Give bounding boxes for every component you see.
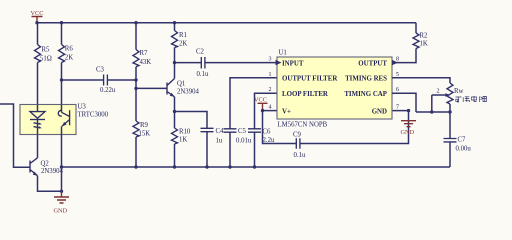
svg-text:C5: C5 — [238, 128, 247, 135]
resistor R1 — [172, 23, 188, 79]
svg-text:R7: R7 — [140, 50, 149, 57]
resistor R2 — [413, 23, 428, 49]
svg-text:Q2: Q2 — [41, 161, 50, 168]
svg-text:6: 6 — [396, 87, 399, 93]
svg-text:5: 5 — [396, 72, 399, 78]
junction top rail at R6 — [60, 21, 63, 24]
svg-text:2K: 2K — [179, 41, 187, 48]
svg-text:0.01u: 0.01u — [236, 138, 252, 145]
transistor Q1 2N3904 — [136, 79, 200, 129]
svg-text:1K: 1K — [179, 137, 187, 144]
svg-text:R1: R1 — [179, 32, 187, 39]
svg-text:3: 3 — [269, 57, 272, 63]
ground symbol right — [401, 121, 417, 136]
svg-text:15K: 15K — [139, 131, 151, 138]
svg-text:1u: 1u — [216, 138, 223, 145]
junction rail at R10 — [173, 165, 176, 168]
svg-text:GND: GND — [372, 108, 387, 115]
svg-text:OUTPUT: OUTPUT — [358, 60, 387, 67]
node junction R6/C3 — [60, 78, 63, 81]
optocoupler U3 TRTC3000 — [20, 104, 109, 135]
svg-text:C2: C2 — [196, 49, 205, 56]
svg-text:C4: C4 — [216, 128, 225, 135]
ground symbol left — [54, 191, 70, 214]
svg-text:2: 2 — [269, 87, 272, 93]
svg-text:2: 2 — [437, 89, 440, 95]
svg-text:R2: R2 — [420, 33, 429, 40]
svg-text:R9: R9 — [140, 122, 149, 129]
svg-text:TIMING RES: TIMING RES — [345, 76, 387, 83]
svg-text:C7: C7 — [458, 137, 467, 144]
wire pin4 V+ — [263, 110, 278, 112]
junction Rw bottom / C7 — [448, 110, 451, 113]
svg-text:1K: 1K — [420, 41, 428, 48]
svg-text:C3: C3 — [96, 67, 105, 74]
potentiometer Rw (adjustable resistor) — [432, 83, 464, 112]
phototransistor inside U3 — [58, 105, 69, 192]
resistor R6 — [59, 23, 74, 105]
svg-text:8: 8 — [396, 57, 399, 63]
capacitor C5 — [224, 128, 252, 167]
junction Q1 base node — [134, 87, 137, 90]
resistor R7 — [133, 23, 151, 121]
junction Rw wiper on bottom — [430, 110, 433, 113]
svg-text:V+: V+ — [282, 108, 291, 115]
svg-text:VCC: VCC — [31, 10, 44, 17]
svg-text:7: 7 — [396, 105, 399, 111]
svg-text:Q1: Q1 — [177, 81, 185, 88]
junction rail at C6 — [253, 165, 256, 168]
svg-text:0.1u: 0.1u — [294, 152, 306, 159]
VCC power symbol at U1 — [254, 97, 268, 111]
svg-text:U1: U1 — [279, 50, 287, 57]
junction rail at C5 — [228, 165, 231, 168]
svg-text:43K: 43K — [140, 59, 152, 66]
wire pin6 TIMING CAP down and across — [392, 93, 450, 112]
capacitor C2 — [175, 49, 278, 79]
junction rail at C4 — [205, 165, 208, 168]
wire top VCC rail — [37, 22, 416, 24]
wire bottom ground rail — [62, 166, 451, 168]
svg-text:2N3904: 2N3904 — [177, 89, 200, 96]
VCC power symbol top-left — [31, 10, 44, 23]
junction rail at opto emitter — [60, 165, 63, 168]
junction Q2 emitter / GND — [60, 190, 63, 193]
pin 3 input arrow — [276, 60, 282, 65]
svg-text:2N3904: 2N3904 — [41, 168, 64, 175]
svg-text:0.00u: 0.00u — [456, 146, 472, 153]
svg-text:0.22u: 0.22u — [100, 87, 116, 94]
transistor Q2 2N3904 — [30, 135, 64, 192]
junction pin4 / VCC — [261, 109, 264, 112]
svg-text:Rw: Rw — [454, 88, 464, 95]
op-amp U1 LM567CN tone decoder — [277, 50, 392, 129]
svg-text:TRTC3000: TRTC3000 — [78, 112, 109, 119]
label 可调电阻 (adjustable resistor) — [456, 96, 487, 102]
wire pin7 GND — [392, 110, 409, 112]
wire VCC node down to C9 — [263, 111, 297, 144]
wire pin8 OUTPUT to R2 — [392, 49, 416, 63]
svg-text:LM567CN NOPB: LM567CN NOPB — [278, 122, 328, 129]
wire pin2 LOOP FILTER to C6 — [255, 93, 278, 129]
junction top rail at R5 — [35, 21, 38, 24]
junction C3/R7 — [134, 78, 137, 81]
svg-text:R10: R10 — [179, 129, 191, 136]
wire pin1 OUTPUT FILTER to C5 — [230, 78, 277, 129]
svg-text:GND: GND — [54, 208, 68, 215]
svg-text:1: 1 — [269, 72, 272, 78]
svg-text:GND: GND — [401, 129, 415, 136]
wire left loop to Q2 base — [0, 104, 30, 167]
junction top rail at R7 — [134, 21, 137, 24]
wire pin5 TIMING RES to Rw — [392, 78, 450, 83]
svg-text:2K: 2K — [65, 55, 73, 62]
svg-text:TIMING CAP: TIMING CAP — [344, 91, 387, 98]
pin 8 output arrow — [392, 60, 398, 65]
resistor R5 — [35, 23, 52, 105]
svg-text:INPUT: INPUT — [282, 60, 304, 67]
svg-text:U3: U3 — [78, 104, 87, 111]
svg-text:R6: R6 — [65, 46, 74, 53]
capacitor C6 — [248, 129, 275, 168]
junction Q1 emitter node — [173, 110, 176, 113]
svg-text:VCC: VCC — [254, 97, 267, 104]
svg-text:51Ω: 51Ω — [40, 56, 52, 63]
svg-text:C9: C9 — [293, 132, 302, 139]
svg-text:OUTPUT FILTER: OUTPUT FILTER — [282, 76, 338, 83]
capacitor C4 — [201, 128, 225, 167]
resistor R10 — [172, 128, 191, 167]
capacitor C3 — [62, 67, 137, 95]
LED inside U3 — [30, 105, 45, 135]
svg-text:C6: C6 — [263, 129, 272, 136]
resistor R9 — [133, 121, 150, 167]
svg-text:0.1u: 0.1u — [197, 71, 209, 78]
wire emitter node to C4 — [175, 112, 208, 129]
junction top rail at R1 — [173, 21, 176, 24]
svg-text:R5: R5 — [42, 47, 51, 54]
junction pin7 GND node — [407, 109, 410, 112]
svg-text:4: 4 — [269, 105, 272, 111]
junction rail at R9 — [134, 165, 137, 168]
junction Q1 collector / C2 tap — [173, 61, 176, 64]
svg-text:LOOP FILTER: LOOP FILTER — [282, 91, 329, 98]
capacitor C9 — [293, 111, 409, 159]
capacitor C7 — [444, 112, 472, 167]
